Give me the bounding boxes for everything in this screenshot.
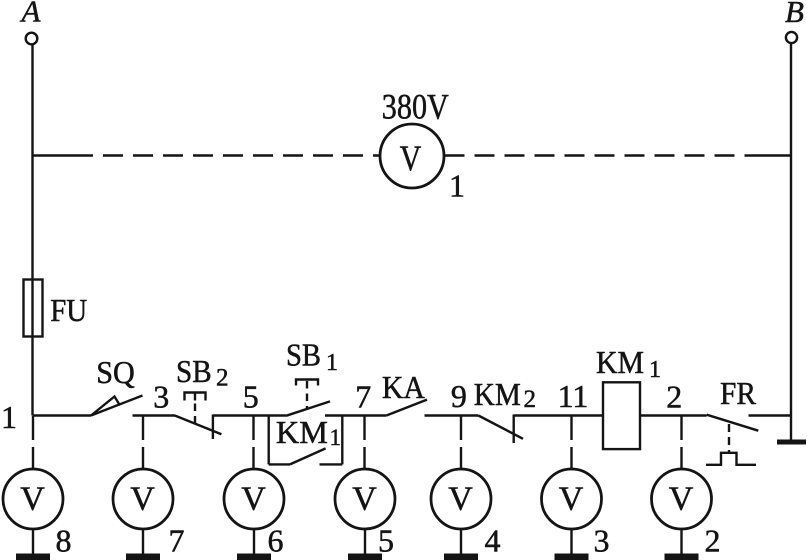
contact FR blade — [707, 415, 759, 431]
contact KM1 auxiliary blade — [290, 448, 326, 464]
voltmeter V4 stem — [460, 529, 462, 555]
svg-text:1: 1 — [330, 425, 342, 450]
wire latch branch right vertical — [341, 416, 343, 465]
ground V7 — [126, 554, 160, 560]
wire main segment d — [325, 414, 386, 416]
svg-text:5: 5 — [378, 523, 394, 559]
switch SQ blade — [91, 396, 143, 416]
svg-text:V: V — [130, 481, 155, 518]
voltmeter V1 circle — [380, 124, 444, 188]
fuse FU — [24, 280, 43, 337]
voltmeter V8 circle — [3, 469, 63, 529]
voltmeter V7 — [113, 469, 173, 560]
svg-text:V: V — [20, 481, 45, 518]
wire main segment a — [33, 414, 92, 416]
svg-text:7: 7 — [169, 523, 185, 559]
wire dashed measurement line right — [445, 154, 764, 156]
wire latch branch left vertical — [268, 416, 270, 465]
svg-text:SQ: SQ — [96, 354, 135, 390]
pushbutton SB2 stop — [212, 415, 214, 440]
voltmeter V7 stem — [142, 529, 144, 555]
contact KM2 blade — [478, 416, 523, 439]
svg-text:B: B — [785, 0, 804, 29]
voltmeter V6 — [224, 469, 284, 560]
svg-text:V: V — [669, 481, 694, 518]
voltmeter V3 — [542, 469, 602, 560]
ground V3 — [555, 554, 589, 560]
voltmeter V3 circle — [542, 469, 602, 529]
svg-text:V: V — [352, 481, 377, 518]
contact KA blade — [386, 400, 427, 416]
ground V5 — [348, 554, 382, 560]
switch SQ lever triangle — [91, 397, 120, 416]
wire main segment e — [425, 414, 479, 416]
wire latch branch bottom left — [269, 463, 290, 465]
voltmeter V3 stem — [570, 529, 572, 555]
svg-text:2: 2 — [666, 379, 682, 415]
voltmeter V6 stem — [253, 529, 255, 555]
voltmeter V7 circle — [113, 469, 173, 529]
svg-text:V: V — [448, 481, 473, 518]
terminal A — [26, 33, 38, 45]
svg-text:2: 2 — [524, 386, 537, 413]
pushbutton SB2 actuator stem — [194, 393, 196, 401]
svg-text:1: 1 — [449, 168, 465, 204]
svg-text:SB: SB — [286, 336, 321, 372]
wire dashed link node2 — [680, 416, 682, 469]
wire B vertical — [790, 44, 792, 443]
voltmeter V8 stem — [32, 529, 34, 555]
svg-text:KM: KM — [276, 414, 328, 450]
svg-text:11: 11 — [558, 378, 589, 414]
svg-text:7: 7 — [355, 379, 371, 415]
svg-text:KA: KA — [382, 369, 425, 405]
svg-text:3: 3 — [594, 523, 610, 559]
pushbutton SB2 actuator bar — [185, 393, 206, 401]
coil KM1 — [603, 382, 640, 449]
voltmeter V5 stem — [364, 529, 366, 555]
terminal B — [786, 32, 797, 43]
voltmeter V8 — [3, 469, 63, 560]
wire dashed link node1 — [32, 416, 34, 469]
wire dashed link node11 — [570, 416, 572, 469]
voltmeter V6 circle — [224, 469, 284, 529]
svg-text:V: V — [400, 138, 422, 178]
svg-text:3: 3 — [153, 379, 169, 415]
contact FR thermal element — [706, 453, 756, 465]
wire main segment h — [749, 414, 792, 416]
svg-text:FU: FU — [50, 292, 87, 328]
contact FR link dashed — [728, 424, 730, 452]
voltmeter V2 stem — [680, 529, 682, 555]
wire dashed link node9 — [460, 416, 462, 469]
ground V8 — [16, 554, 50, 560]
wire main segment c — [213, 414, 286, 416]
svg-text:2: 2 — [216, 365, 229, 392]
wire dashed measurement line left solid stub — [33, 154, 74, 156]
wire latch branch bottom right — [320, 463, 343, 465]
contact KM2 stop — [513, 415, 515, 444]
ground V2 — [665, 554, 699, 560]
wire dashed measurement line left — [73, 154, 380, 156]
svg-text:2: 2 — [705, 523, 721, 559]
svg-text:4: 4 — [485, 523, 501, 559]
pushbutton SB2 blade — [175, 416, 222, 435]
ground V4 — [444, 554, 478, 560]
svg-text:A: A — [20, 0, 42, 29]
wire A vertical — [31, 45, 33, 416]
voltmeter V2 — [652, 469, 712, 560]
ground bar B — [777, 440, 806, 445]
svg-text:6: 6 — [268, 523, 284, 559]
voltmeter V2 circle — [652, 469, 712, 529]
wire main segment b — [133, 414, 176, 416]
wire main segment f — [514, 414, 603, 416]
pushbutton SB1 blade — [286, 401, 330, 415]
wire dashed link node3 — [142, 416, 144, 469]
svg-text:9: 9 — [451, 378, 467, 414]
svg-text:1: 1 — [649, 357, 661, 383]
svg-text:KM: KM — [596, 344, 644, 380]
voltmeter V4 circle — [431, 469, 491, 529]
svg-text:380V: 380V — [382, 86, 449, 126]
wire dashed link node7 — [363, 416, 365, 469]
svg-text:KM: KM — [474, 376, 521, 412]
pushbutton SB2 actuator link dashed — [194, 404, 196, 424]
svg-text:1: 1 — [326, 350, 338, 376]
svg-text:5: 5 — [243, 379, 259, 415]
svg-text:V: V — [241, 481, 266, 518]
wire main segment g — [640, 414, 707, 416]
svg-text:8: 8 — [56, 523, 72, 559]
svg-text:V: V — [559, 481, 584, 518]
wire dashed link node5 — [252, 416, 254, 469]
pushbutton SB1 actuator link dashed — [306, 381, 308, 408]
ground V6 — [237, 554, 271, 560]
svg-text:FR: FR — [720, 375, 757, 411]
svg-text:1: 1 — [1, 399, 17, 435]
voltmeter V5 circle — [335, 469, 395, 529]
voltmeter V4 — [431, 469, 491, 560]
pushbutton SB1 actuator bar — [296, 380, 318, 386]
voltmeter V5 — [335, 469, 395, 560]
svg-text:SB: SB — [176, 353, 212, 389]
wire dashed measurement line right solid stub — [763, 154, 791, 156]
